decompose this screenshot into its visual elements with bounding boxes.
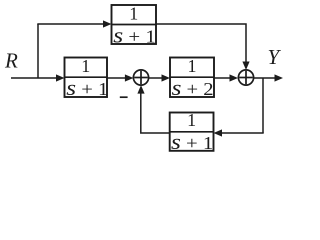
wire: block G1 output to summing junction S2 (down arrowhead) [156,24,250,70]
input label R [4,49,18,73]
wire: summing junction S2 to output Y with arrowhead [254,74,283,81]
summing junction S2 [238,70,253,85]
svg-text:1: 1 [129,4,138,24]
block G1 transfer function 1/(s+1) top path [112,4,157,48]
svg-text:1: 1 [188,56,197,76]
svg-text:s + 1: s + 1 [171,129,213,154]
svg-text:1: 1 [81,56,90,76]
wire: summing junction S1 to block G3 with arrowhead [149,74,170,81]
node: branch point on input wire [37,24,39,79]
svg-text:s + 1: s + 1 [113,23,156,48]
output label Y [268,45,282,69]
svg-text:R: R [4,49,18,73]
block H1 transfer function 1/(s+1) feedback path [170,110,214,154]
node: feedback tap on output wire [262,78,264,133]
wire: block H1 output up to summing junction S1 with up arrowhead [137,85,169,133]
wire: feedback tap to block H1 with left arrowhead [214,129,264,136]
svg-text:s + 2: s + 2 [172,75,214,100]
sign label minus at S1 feedback input [120,96,128,98]
block G2 transfer function 1/(s+1) forward path [65,56,109,100]
block G3 transfer function 1/(s+2) [170,56,214,100]
wire: block G2 output to summing junction S1 with arrowhead [107,74,133,81]
svg-text:s + 1: s + 1 [66,75,108,100]
wire: branch to block G1 with arrowhead [37,20,111,27]
summing junction S1 [133,70,148,85]
svg-text:1: 1 [187,110,196,130]
wire: block G3 output to summing junction S2 with arrowhead [214,74,238,81]
wire: input R to block G2 with arrowhead [11,74,65,81]
